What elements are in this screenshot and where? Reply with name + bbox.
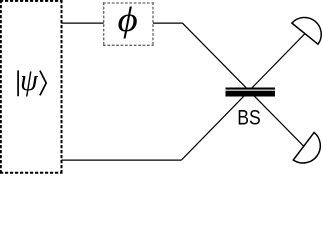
phase shifter box: bottom edge <box>103 44 154 46</box>
phase shifter box: right edge <box>152 2 154 46</box>
wire: horizontal from phase box to upper bend <box>153 22 182 24</box>
state preparation box: bottom edge <box>0 172 63 174</box>
svg-text:BS: BS <box>237 107 261 130</box>
beamsplitter BS bar <box>226 88 276 97</box>
state preparation box (dashed): top edge <box>0 0 63 2</box>
detector D1 (upper, half-disc) <box>292 17 321 44</box>
phase shifter box (dashed): top edge <box>103 2 154 4</box>
state preparation box: right edge <box>61 0 63 174</box>
state preparation box: left edge <box>0 0 2 174</box>
svg-text:ψ: ψ <box>20 64 38 97</box>
wire: upper diagonal beam through beamsplitter to lower detector <box>182 23 303 146</box>
beamsplitter white stripe <box>226 90 276 91</box>
right angle bracket of |psi> <box>40 71 46 96</box>
phi label <box>118 0 138 38</box>
ket bar of |psi> <box>17 70 19 96</box>
wire: top horizontal from state box to phase box <box>62 22 104 24</box>
wire: bottom horizontal from state box to lower bend <box>62 159 182 161</box>
svg-text:ϕ: ϕ <box>118 0 138 38</box>
psi glyph of |psi> <box>20 64 38 97</box>
detector D2 (lower, half-disc) <box>293 132 320 163</box>
wire: lower diagonal beam through beamsplitter to upper detector <box>181 34 305 161</box>
phase shifter box: left edge <box>103 2 105 46</box>
